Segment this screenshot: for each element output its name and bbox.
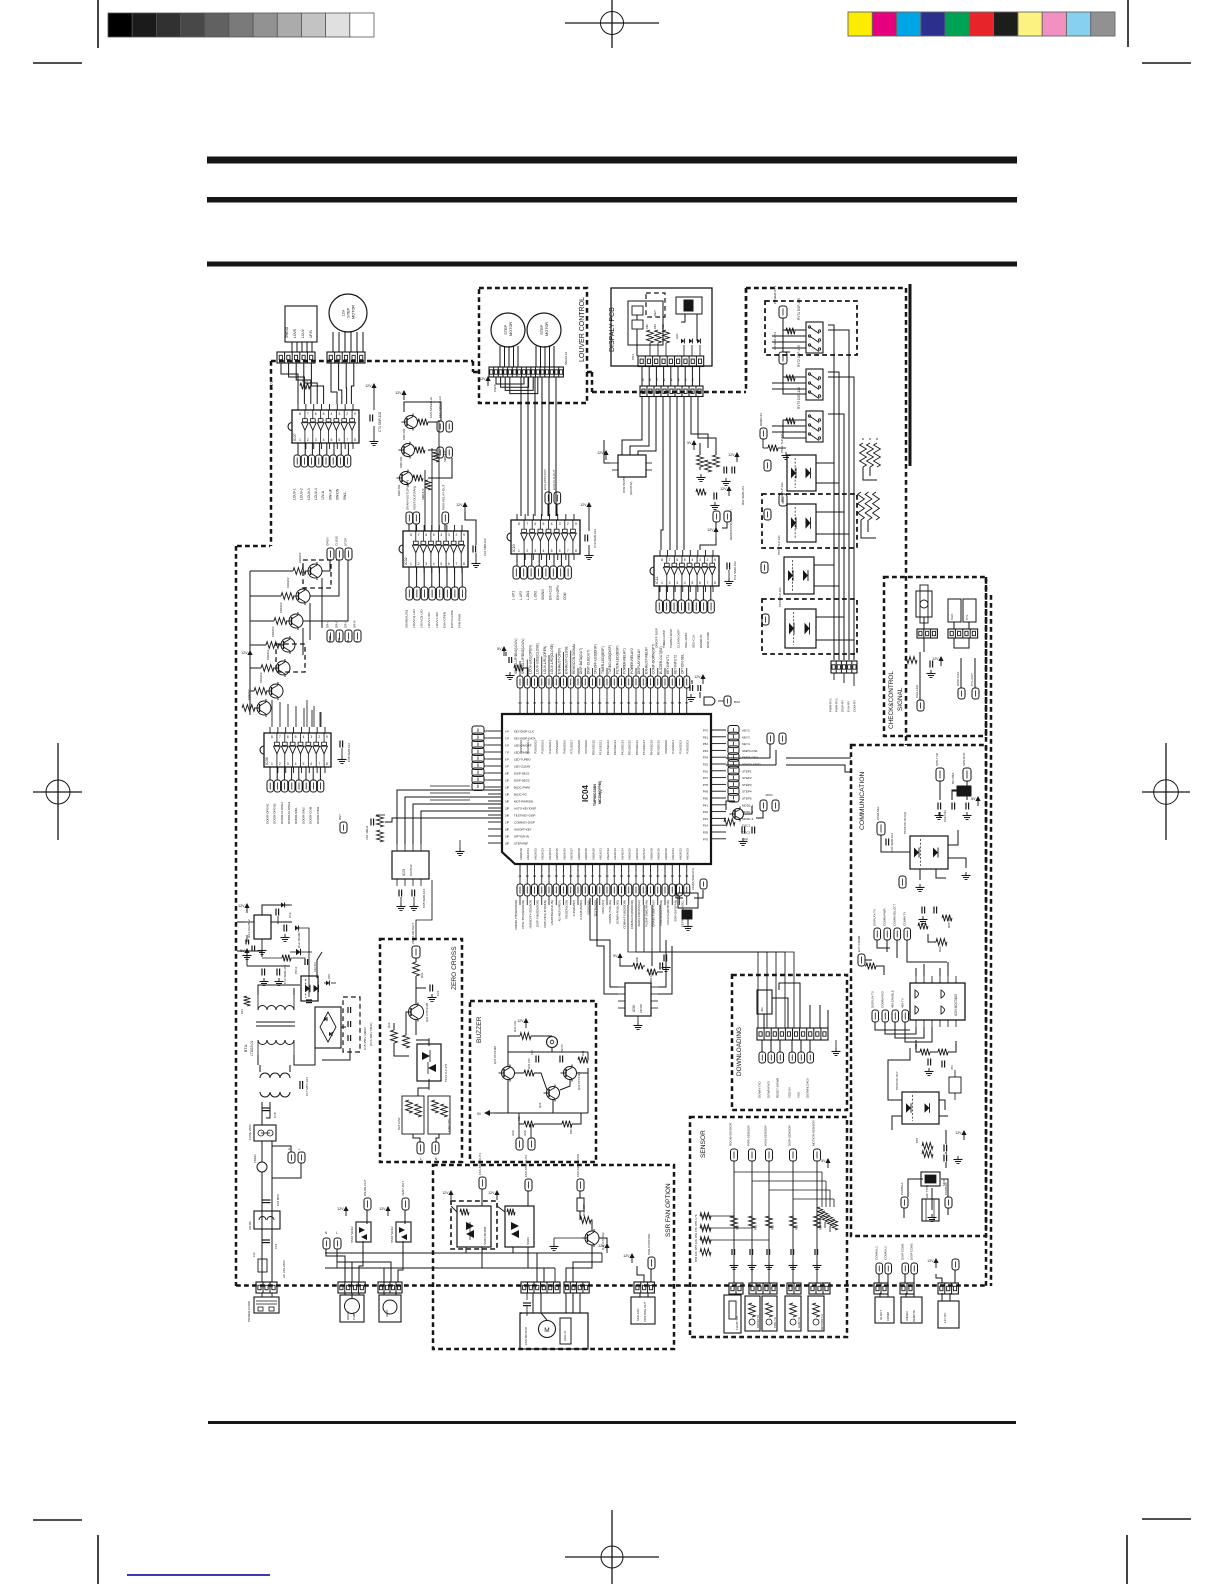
ground mcu left [456,840,465,856]
sensor connector CN53 [787,1283,801,1294]
svg-text:DOOR-CLOSE2: DOOR-CLOSE2 [287,802,291,824]
wire ssr outputs [481,1189,483,1206]
display key dashed box [646,293,665,317]
svg-text:(DOWNLOAD): (DOWNLOAD) [805,1078,809,1098]
svg-text:PC06 PC-817: PC06 PC-817 [895,1071,899,1090]
comm caps row1 [935,803,972,823]
pill terminal RY71 [773,286,787,318]
svg-text:12V: 12V [580,503,587,507]
svg-text:CN1: CN1 [631,354,635,360]
svg-text:DISPALY PCB: DISPALY PCB [609,307,616,352]
pill pair CN96 [902,1263,918,1274]
pill terminals below IC07 [294,455,351,467]
svg-text:SMR-104: SMR-104 [649,972,653,984]
filter cluster left of mcu labels [497,646,528,680]
comm small box R99 [949,1070,961,1100]
svg-text:IC07: IC07 [293,433,297,441]
capacitor C07 [662,955,671,972]
svg-text:LOUV-L/R2: LOUV-L/R2 [435,612,439,628]
svg-text:AN0/KS0: AN0/KS0 [591,848,595,860]
svg-text:R: R [862,437,865,441]
svg-text:IC09 MDC3105: IC09 MDC3105 [954,994,958,1016]
svg-text:P07: P07 [703,776,709,780]
svg-text:VDD-5V: VDD-5V [787,1087,791,1098]
svg-text:P71/SEG7: P71/SEG7 [570,740,574,754]
wire bus CN73 to IC10 [520,377,522,516]
transistor Q73 [397,470,424,497]
svg-text:EXHAUST-OPEN: EXHAUST-OPEN [557,648,561,674]
svg-text:ON/OFF-KEY: ON/OFF-KEY [514,828,532,832]
pill terminal fan-fg [576,1154,584,1191]
svg-text:BUZZER-OUT(BZ): BUZZER-OUT(BZ) [659,646,663,674]
capacitor C19 C20 [262,1240,278,1249]
pill terminal reset [338,814,347,833]
capacitor C71 [365,383,382,446]
svg-text:EXH-OPN-OUT: EXH-OPN-OUT [543,469,547,490]
capacitor C41 [519,1293,531,1316]
wire relay bus below strip [833,673,835,680]
mcu bottom net labels [514,899,685,929]
svg-text:P23: P23 [703,817,709,821]
pill terminal RY72 [773,332,787,364]
mcu inner left pin numbers [505,730,508,846]
door option dashed sub-box 1 [303,560,331,588]
svg-text:R80: R80 [645,324,649,329]
svg-text:EXHAUST-CLOSE: EXHAUST-CLOSE [565,646,569,674]
svg-text:PC01 TLP-621: PC01 TLP-621 [780,433,784,453]
svg-text:C92 C93: C92 C93 [943,810,947,822]
svg-text:COMP-DOWN(OPT): COMP-DOWN(OPT) [652,644,656,674]
jumper JP92 [963,599,976,622]
svg-text:12V: 12V [932,657,939,661]
mcu right pins [711,730,726,839]
capacitor C10 at IC10 [580,502,597,560]
svg-text:AN8/KS8: AN8/KS8 [577,848,581,860]
fan motor unit [520,1293,588,1349]
svg-text:2: 2 [307,438,309,442]
mcu top pins [518,701,688,714]
svg-text:R97: R97 [915,1137,919,1143]
buffer IC08 [260,727,331,773]
svg-text:OPTION-SEL: OPTION-SEL [681,654,685,674]
svg-text:8: 8 [649,378,651,382]
svg-text:12V: 12V [707,528,714,532]
svg-text:AN9/KS9: AN9/KS9 [657,848,661,860]
capacitor C17 [300,1077,309,1096]
svg-text:X-IN(4MHZ): X-IN(4MHZ) [572,900,576,916]
step motor M2 [491,313,525,347]
svg-text:TIMER-DISP: TIMER-DISP [662,630,666,648]
svg-text:ZNR11: ZNR11 [253,1154,257,1163]
svg-text:COMM-SELECT: COMM-SELECT [892,904,896,926]
svg-text:D71: D71 [302,379,308,383]
connector CN77 fan2 [564,1282,589,1293]
svg-text:ROOM-SENSOR: ROOM-SENSOR [728,1122,732,1146]
main dashed border left [235,546,238,1286]
connector CN73 [489,367,563,377]
svg-text:DOWNLOADING: DOWNLOADING [736,1027,743,1076]
svg-text:SEG-CLK: SEG-CLK [691,633,695,648]
svg-text:P43: P43 [703,749,709,753]
svg-text:SSR2 S1D02: SSR2 S1D02 [390,1226,394,1243]
power arrow check box [932,656,944,666]
svg-text:REMOCON-SIGNAL: REMOCON-SIGNAL [572,643,576,674]
svg-text:DISP-SENSOR: DISP-SENSOR [787,1124,791,1146]
capacitor C91 [927,661,936,678]
optocoupler PC21 zero cross [417,1038,448,1090]
svg-text:4: 4 [691,558,693,562]
svg-text:PUMP: PUMP [352,1312,356,1320]
svg-text:6: 6 [699,581,701,585]
svg-text:P61: P61 [703,735,709,739]
svg-text:SWING: SWING [541,589,545,600]
filter cluster right of mcu labels [687,674,706,702]
ground comm1 [916,872,971,892]
svg-text:IC06: IC06 [632,1005,636,1012]
pill pair CN95 [876,1263,892,1274]
svg-text:3: 3 [338,412,340,416]
capacitor C21 [428,985,441,1002]
svg-text:LOUV: LOUV [301,328,305,338]
svg-text:P39/SEG3: P39/SEG3 [686,740,690,754]
svg-text:COM-SEL: COM-SEL [876,806,880,820]
color calibration bar [848,12,1115,36]
svg-text:KEY3: KEY3 [742,735,750,739]
svg-text:C4148 (SMR-471): C4148 (SMR-471) [691,868,695,890]
svg-text:EXH-OPN: EXH-OPN [556,585,560,600]
wire rail N [325,1267,555,1269]
ground comm bottom [928,1214,937,1222]
wire buzzer [551,1048,553,1052]
svg-text:R56 47K: R56 47K [694,1227,698,1238]
svg-text:L-DN2: L-DN2 [534,591,538,600]
svg-text:FAN-SPEED(SSR): FAN-SPEED(SSR) [659,900,663,926]
ground ssr [550,1238,586,1251]
svg-text:6: 6 [425,533,427,537]
svg-text:EXHAUST-RELAY: EXHAUST-RELAY [644,646,648,674]
svg-text:TURBO-LED(DISP): TURBO-LED(DISP) [608,645,612,674]
svg-text:3: 3 [559,522,561,526]
svg-text:4: 4 [302,735,304,739]
svg-text:LED-TURBO: LED-TURBO [514,758,531,762]
wire IC11 pins to pills [658,586,660,600]
relay RY71 dashed sub-box [765,301,857,355]
svg-text:5V: 5V [477,1112,482,1116]
downloading dashed box [732,975,847,1110]
svg-text:P: P [507,765,509,769]
wire photocouplers to bus [816,462,834,464]
svg-text:MOT-PWR/DN: MOT-PWR/DN [514,800,533,804]
pill terminal RY73 [237,325,986,1349]
svg-text:8: 8 [326,762,328,766]
svg-text:N: N [435,1157,438,1161]
svg-text:1: 1 [299,438,301,442]
svg-text:REMOTE: REMOTE [912,1310,916,1322]
resistor R31 [513,1021,531,1040]
svg-text:IN-OUT: IN-OUT [879,1310,883,1320]
svg-text:C05 SMR-104: C05 SMR-104 [422,889,426,908]
svg-text:TIMER-LED(DISP): TIMER-LED(DISP) [601,646,605,674]
svg-text:FAN-SPEED-HI: FAN-SPEED-HI [429,397,433,418]
svg-text:4: 4 [323,438,325,442]
wire pc05 [881,835,910,852]
svg-text:TEST/KEY-DISP: TEST/KEY-DISP [514,814,535,818]
svg-text:PC05 PC-817(2): PC05 PC-817(2) [903,812,907,834]
svg-text:LOUVER CONTROL: LOUVER CONTROL [579,297,586,362]
svg-text:KRA102: KRA102 [259,672,263,683]
svg-text:L-UP2: L-UP2 [519,591,523,600]
svg-text:POWER-RELAY1: POWER-RELAY1 [623,648,627,674]
svg-text:LOUV-4: LOUV-4 [314,488,318,500]
comm pills bottom pair [901,1197,952,1208]
wire comm top [939,781,941,800]
svg-text:SMR-472: SMR-472 [443,450,447,462]
svg-text:EXH-CLOSE: EXH-CLOSE [450,610,454,628]
svg-text:R82 SMR-472: R82 SMR-472 [741,486,745,505]
svg-text:C22 472: C22 472 [313,962,317,972]
svg-text:P76: P76 [703,837,709,841]
svg-text:RY73 DSP-12V: RY73 DSP-12V [797,386,801,409]
svg-text:F12: F12 [252,1252,256,1257]
svg-text:2: 2 [346,412,348,416]
wire IC07 pins to pills [297,443,299,455]
svg-text:DISP-CHK: DISP-CHK [956,672,960,686]
svg-text:6: 6 [676,558,678,562]
mcu bottom pins [518,864,688,878]
svg-text:CTL-OUT: CTL-OUT [970,673,974,686]
pill terminals door top [327,548,352,560]
svg-text:P00/SEG0: P00/SEG0 [519,740,523,754]
svg-text:COMMUNICATION: COMMUNICATION [859,772,866,830]
svg-text:IC02: IC02 [404,557,408,565]
svg-text:1: 1 [271,762,273,766]
svg-text:SWING(U/D): SWING(U/D) [404,610,408,628]
svg-text:5: 5 [323,412,325,416]
svg-text:7: 7 [455,562,457,566]
wire downloading pills [761,1040,763,1052]
svg-text:M: M [544,1327,549,1334]
svg-text:L-UP1: L-UP1 [511,591,515,600]
svg-text:P78: P78 [703,783,709,787]
photocoupler PC03 [777,535,814,594]
power arrow 12vdc [927,1258,939,1268]
mcu right pin terminals [728,726,739,803]
svg-text:BUZZER: BUZZER [476,1016,483,1043]
connector CN96 [900,1283,914,1294]
svg-text:ROOM TH: ROOM TH [756,1315,760,1328]
svg-text:P55/SEG15: P55/SEG15 [628,740,632,756]
svg-text:1/4W 225J: 1/4W 225J [447,1118,451,1132]
svg-text:P25: P25 [703,763,709,767]
wire display internals [636,315,638,320]
resistor R41 [580,1204,591,1224]
svg-text:EXH-OPEN: EXH-OPEN [442,612,446,628]
header rule thick [207,157,1017,164]
svg-text:C14 SMR-470: C14 SMR-470 [283,965,287,984]
svg-text:AN1/KS1: AN1/KS1 [526,848,530,860]
svg-text:HIC TYPE: HIC TYPE [925,1185,929,1198]
svg-text:DISP-COM: DISP-COM [706,632,710,648]
eeprom IC06 [618,983,658,1016]
svg-text:1: 1 [661,581,663,585]
led diode row D83-D85 [675,334,700,356]
resistor grid R24-R27 [397,1096,451,1134]
svg-text:AN7/KS7: AN7/KS7 [570,848,574,860]
capacitor bank labels [363,1022,373,1050]
wire IC10 pins to pills [516,554,518,566]
svg-text:R52: R52 [771,1224,775,1230]
wire AC input [259,1065,261,1072]
wire pills to IC02 [408,524,410,531]
pill terminals below IC11 [656,600,714,613]
main dashed border right [985,577,988,1286]
svg-text:KRA102: KRA102 [279,602,283,613]
mcu left pins [488,730,509,846]
svg-text:2: 2 [669,581,671,585]
svg-text:R53: R53 [795,1224,799,1230]
resistor R42 box [577,1198,584,1211]
svg-text:GND: GND [511,1130,515,1136]
svg-text:COMM-TX: COMM-TX [902,912,906,926]
svg-text:FAN-SSR-OUT1: FAN-SSR-OUT1 [478,1153,482,1175]
pill terminals door right [327,630,361,642]
svg-text:VENT-OUT(FAN): VENT-OUT(FAN) [412,486,416,510]
wire check outputs [919,652,921,700]
svg-text:KRA102: KRA102 [286,577,290,588]
svg-text:P68/SEG6: P68/SEG6 [562,740,566,754]
wire bus mcu top to blocks [519,661,521,676]
wire louver internal bus [496,377,524,384]
svg-text:LOUV-1: LOUV-1 [292,488,296,500]
svg-text:12V: 12V [241,651,248,655]
svg-text:AUTO-KEY/DISP: AUTO-KEY/DISP [514,807,536,811]
wire resistor stacks [863,467,877,480]
pill terminal zero cross [411,923,420,959]
svg-text:R96: R96 [938,946,942,952]
power arrow 12V out [238,903,250,913]
resistor array RA81 [645,324,669,356]
pill remocon-in and parts [759,413,791,459]
svg-text:SMPS-ON1: SMPS-ON1 [742,749,758,753]
svg-text:12V: 12V [442,1191,449,1195]
svg-text:LOUV-L/R1: LOUV-L/R1 [427,612,431,628]
svg-text:P26/SEG2: P26/SEG2 [533,740,537,754]
svg-text:C02 SMR-102: C02 SMR-102 [483,538,487,556]
indoor-outdoor box [875,1274,894,1323]
resistor R71 and diode cluster [300,379,310,389]
wire bus mcu bottom down [519,896,521,905]
wire CN80 pair [641,367,643,387]
svg-text:ON/OFF-LED(DISP): ON/OFF-LED(DISP) [594,644,598,674]
zero cross dashed box [380,939,462,1162]
svg-text:P16: P16 [703,769,709,773]
svg-text:7: 7 [656,378,658,382]
svg-text:AN6/KS6: AN6/KS6 [635,848,639,860]
power arrows ssr [442,1190,500,1200]
transformer T11 [256,995,295,1055]
crop mark bottom-left [33,1520,98,1584]
relay RY71 [797,297,823,353]
crop mark top-right [1128,0,1191,63]
svg-text:C71 SMR-102: C71 SMR-102 [378,412,382,432]
resistor R22 R23 [387,1022,409,1048]
svg-text:COMM-A: COMM-A [900,1183,904,1196]
svg-text:AN6/KS6: AN6/KS6 [562,848,566,860]
svg-text:12V: 12V [720,487,727,491]
mcu left net labels [514,730,536,846]
svg-text:12V: 12V [337,1207,344,1211]
svg-text:KRC102: KRC102 [402,428,406,440]
ssr fan option dashed box [433,1165,674,1349]
buffer IC10 [507,514,580,560]
op-amp buffer IC07 [288,404,359,449]
svg-text:OSC1: OSC1 [742,824,751,828]
pill terminals Q-cluster [437,421,452,458]
svg-text:AN5/KS5: AN5/KS5 [555,848,559,860]
sensor thermistor TH5 [808,1296,824,1331]
svg-text:PC02 TLP-621: PC02 TLP-621 [780,482,784,502]
svg-text:12V: 12V [927,1259,934,1263]
svg-text:R82: R82 [661,324,665,329]
svg-text:8: 8 [271,735,273,739]
svg-text:C12: C12 [288,912,292,918]
display inner module box [628,301,663,345]
dashed line top connectors [271,360,473,363]
downloading connector CN61 [757,1028,828,1040]
svg-text:FAN-FEEDBACK: FAN-FEEDBACK [576,1154,580,1177]
discrete cluster below display [687,440,745,510]
svg-text:CHK-LED: CHK-LED [915,684,919,698]
outer dashed border right 2 [990,595,993,1286]
svg-text:P34: P34 [703,756,709,760]
svg-text:RST: RST [338,814,342,820]
sensor pill terminals [731,1149,821,1161]
net labels Q-cluster [429,395,442,418]
pill terminal fan-hi [478,1153,486,1189]
svg-text:473: 473 [950,1065,954,1070]
svg-text:IC04: IC04 [581,785,590,802]
svg-text:12V: 12V [456,503,463,507]
svg-text:DISP-RY: DISP-RY [840,700,844,712]
svg-text:2: 2 [455,533,457,537]
svg-text:LT1015-01: LT1015-01 [250,1041,254,1056]
wire comm ic09 [875,1022,910,1030]
svg-text:4: 4 [684,581,686,585]
connector CN91 [917,629,937,638]
svg-text:3: 3 [534,549,536,553]
check control title [888,671,904,729]
net number labels display [642,378,701,382]
power arrow remocon [700,522,727,550]
transistor Q72 [399,442,426,469]
svg-text:DOOR-SW2: DOOR-SW2 [301,807,305,824]
connector CN11 power [256,1282,277,1293]
svg-text:C18 MPX: C18 MPX [276,1194,280,1206]
svg-text:SSR FAN OPTION: SSR FAN OPTION [665,1183,672,1237]
svg-text:STEP: STEP [347,307,351,317]
relay bus vertical wires [828,325,834,660]
svg-text:P42/SEG4: P42/SEG4 [548,740,552,754]
svg-text:EXH-CLS-OUT: EXH-CLS-OUT [552,469,556,490]
svg-text:PC11: PC11 [294,966,298,974]
comm pill mid [899,876,906,888]
svg-text:COMM-TX(INDOOR): COMM-TX(INDOOR) [623,900,627,929]
svg-text:5: 5 [684,558,686,562]
power arrow door cluster [241,650,253,660]
ground eeprom [634,1016,643,1030]
svg-text:STEP-REF: STEP-REF [514,842,529,846]
comm caps right pc06 [944,1130,967,1168]
